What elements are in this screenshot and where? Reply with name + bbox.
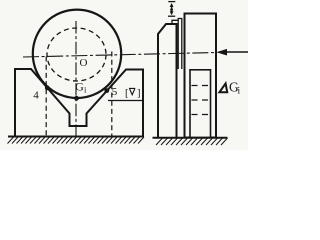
v-block body: [15, 69, 143, 136]
svg-text:[: [: [125, 88, 129, 99]
underline below 5 [V]: [108, 100, 143, 102]
right column: [185, 14, 217, 138]
svg-text:]: ]: [137, 88, 141, 99]
gauge block dashed lines: [192, 86, 210, 115]
base line right: [153, 137, 228, 139]
dashed projection under point 5: [111, 52, 113, 137]
stand column (left, chamfered top): [158, 24, 177, 138]
bottom contact point Gi: [74, 96, 79, 101]
svg-text:i: i: [238, 87, 241, 97]
ground hatching left: [8, 137, 145, 144]
contact point 4: [45, 86, 50, 91]
svg-text:4: 4: [33, 90, 39, 102]
dashed projection under point 4: [45, 57, 47, 137]
svg-text:5: 5: [112, 86, 118, 98]
label delta Gi: [219, 83, 227, 92]
gauge block stack: [190, 70, 211, 138]
horizontal centerline with slight tilt: [23, 53, 216, 58]
indicator travel symbol: [168, 2, 175, 17]
cylinder outer circle: [33, 10, 121, 98]
measurement arrow: [216, 49, 227, 56]
inner dashed circle: [47, 28, 106, 81]
svg-text:O: O: [80, 57, 88, 69]
ground line left: [8, 136, 144, 138]
contact point 5: [104, 88, 109, 93]
svg-text:G: G: [75, 80, 84, 94]
measuring rod: [178, 19, 182, 70]
vertical centerline: [75, 21, 77, 136]
clamp step on stand top: [172, 20, 178, 24]
base hatching right: [156, 138, 228, 145]
